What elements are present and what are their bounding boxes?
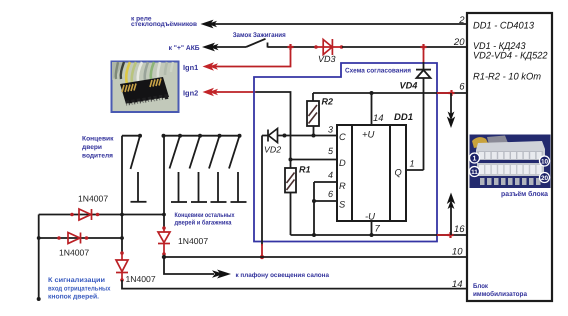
photo connector chip <box>112 62 179 113</box>
diode D6 1N4007 <box>57 233 88 244</box>
wire AKB segment <box>206 46 246 48</box>
diode VD3 <box>314 39 343 55</box>
block immobilizer panel <box>467 13 552 301</box>
wire R1 bottom to line16 <box>290 193 292 236</box>
svg-text:VD3: VD3 <box>318 54 336 64</box>
svg-text:вход отрицательных: вход отрицательных <box>48 285 111 292</box>
wire R line <box>314 181 337 183</box>
svg-text:разъём блока: разъём блока <box>501 190 548 198</box>
wire red branch Ign1 vertical <box>212 47 291 67</box>
junction pin14 dot <box>370 91 374 95</box>
svg-text:1N4007: 1N4007 <box>178 236 208 246</box>
svg-text:водителя: водителя <box>82 152 113 159</box>
switch ignition contact stub <box>267 43 269 48</box>
diode VD4 <box>416 62 431 170</box>
junction pin7 dot <box>370 233 374 237</box>
wire +U line to pin6 <box>313 92 467 94</box>
svg-text:Блок: Блок <box>473 283 489 290</box>
wire line20 switch to VD3 <box>268 46 318 48</box>
wire R2 bottom stub <box>313 126 315 136</box>
svg-text:Схема согласования: Схема согласования <box>345 67 411 74</box>
wire R-S vertical to line16 <box>313 182 315 235</box>
wire line2 to window-lifter relay <box>204 23 467 25</box>
svg-text:двери: двери <box>82 144 102 151</box>
svg-text:Замок Зажигания: Замок Зажигания <box>233 32 286 39</box>
pin marker circle 1 <box>470 153 480 163</box>
wire Ign2 into box to D bus <box>256 92 291 168</box>
junction R2 C-line dot <box>312 134 316 138</box>
wire diode line lower <box>39 237 122 239</box>
svg-text:+U: +U <box>362 130 375 141</box>
wire pin14 vertical <box>371 93 373 125</box>
switch door2 <box>170 136 188 202</box>
photo block connector <box>470 135 551 189</box>
switch ignition lock lever <box>246 39 266 47</box>
svg-text:иммобилизатора: иммобилизатора <box>473 291 527 298</box>
wire red Ign2 <box>212 91 256 93</box>
wire line20 VD3 to block pin20 <box>342 46 467 48</box>
switch door4 <box>209 136 227 202</box>
junction red line6 <box>449 90 455 96</box>
svg-text:дверей и багажника: дверей и багажника <box>175 220 232 227</box>
svg-text:к "+" АКБ: к "+" АКБ <box>169 45 200 52</box>
wire diode3 to line14 <box>122 280 467 289</box>
wire red VD2 lower segment <box>261 244 263 257</box>
switch door3 <box>190 136 208 202</box>
svg-text:VD4: VD4 <box>400 81 418 91</box>
svg-text:1: 1 <box>410 159 415 169</box>
svg-text:1N4007: 1N4007 <box>59 248 89 258</box>
pin marker circle 10 <box>540 156 550 166</box>
svg-text:C: C <box>339 132 346 142</box>
junction S dot <box>312 199 316 203</box>
svg-text:R: R <box>339 181 346 191</box>
junction red line20 <box>421 44 427 50</box>
svg-text:3: 3 <box>328 125 333 135</box>
arrow red Ign1 <box>203 62 219 70</box>
wire VD2 cathode down to line10 <box>261 136 263 246</box>
diode VD2 <box>268 129 287 143</box>
blue box Схема согласования <box>254 63 437 242</box>
svg-text:R1: R1 <box>299 165 311 175</box>
switch group rear doors bar <box>164 135 240 137</box>
wire driver switch bus <box>121 136 123 253</box>
svg-text:Концевик: Концевик <box>82 135 114 142</box>
svg-text:2: 2 <box>458 15 465 26</box>
svg-text:D: D <box>339 158 346 168</box>
wire C line <box>262 135 337 137</box>
junction bar dots <box>162 134 242 138</box>
svg-text:1N4007: 1N4007 <box>78 194 108 204</box>
svg-text:14: 14 <box>373 113 384 124</box>
svg-text:DD1 - CD4013: DD1 - CD4013 <box>473 21 535 32</box>
wire group bus <box>163 136 165 228</box>
svg-text:20: 20 <box>541 175 549 182</box>
junction red on line10 <box>260 255 264 259</box>
wire red VD4 top <box>423 47 425 63</box>
wire red segment line16 <box>437 234 451 236</box>
svg-text:R1-R2 - 10 kOm: R1-R2 - 10 kOm <box>473 72 541 83</box>
svg-text:-U: -U <box>365 212 375 223</box>
wire S line <box>314 200 337 202</box>
svg-text:к плафону освещения салона: к плафону освещения салона <box>236 272 330 279</box>
svg-text:К сигнализации: К сигнализации <box>48 277 105 284</box>
svg-text:1N4007: 1N4007 <box>126 274 156 284</box>
svg-text:Ign1: Ign1 <box>183 63 198 72</box>
diode D5 1N4007 <box>70 209 99 220</box>
svg-text:1: 1 <box>473 156 477 163</box>
diode D7 1N4007 vertical <box>116 251 128 282</box>
svg-text:10: 10 <box>452 246 463 257</box>
switch trunk <box>229 136 247 202</box>
svg-text:6: 6 <box>328 189 333 199</box>
svg-text:20: 20 <box>453 37 465 48</box>
arrow to relay label <box>201 20 218 29</box>
wire diode line upper <box>39 214 164 216</box>
junction line16 RS dot <box>312 233 316 237</box>
svg-text:R2: R2 <box>322 97 334 107</box>
arrow red Ign2 <box>203 88 219 96</box>
wire red segment line6 <box>437 92 452 94</box>
arrow down from line6 <box>450 93 452 118</box>
junction red at switch line <box>288 44 294 50</box>
junction dots bus crossings <box>37 213 166 240</box>
node end dot alarm bus <box>37 297 41 301</box>
arrow to cabin light <box>212 270 231 279</box>
svg-text:Концевики остальных: Концевики остальных <box>175 212 235 219</box>
svg-text:14: 14 <box>452 279 463 290</box>
resistor R2 <box>307 101 319 126</box>
svg-text:6: 6 <box>459 82 465 93</box>
wire to cabin light <box>164 257 214 274</box>
wire Q line pin1 <box>406 169 424 171</box>
diode D8 1N4007 vertical <box>158 226 170 256</box>
wire line10 <box>164 256 467 258</box>
svg-text:DD1: DD1 <box>394 112 413 123</box>
arrow up from line16 <box>450 203 452 235</box>
svg-text:16: 16 <box>454 224 465 235</box>
op-amp DD1 box <box>337 125 406 221</box>
svg-text:стеклоподъёмников: стеклоподъёмников <box>131 21 197 28</box>
svg-text:VD2: VD2 <box>264 145 281 155</box>
wire pin7 vertical <box>371 221 373 235</box>
junction D-line dot <box>289 158 293 162</box>
svg-text:10: 10 <box>541 159 549 166</box>
svg-text:S: S <box>339 200 346 210</box>
svg-text:кнопок дверей.: кнопок дверей. <box>48 293 99 301</box>
svg-text:VD2-VD4 - КД522: VD2-VD4 - КД522 <box>473 51 548 62</box>
wire line16 <box>291 234 467 236</box>
svg-text:7: 7 <box>375 224 381 235</box>
svg-text:Q: Q <box>395 168 402 178</box>
svg-text:11: 11 <box>471 169 478 176</box>
switch driver door <box>122 134 147 202</box>
wire D line <box>291 159 338 161</box>
svg-text:Ign2: Ign2 <box>183 89 198 98</box>
pin marker circle 20 <box>540 173 550 183</box>
resistor R1 <box>285 168 296 193</box>
junction line10 dot <box>162 255 166 259</box>
arrow to +AKB label <box>202 43 219 52</box>
junction red line16 <box>448 232 454 238</box>
wire left bus to alarm <box>38 215 40 299</box>
pin marker circle 11 <box>470 167 480 177</box>
svg-text:4: 4 <box>328 170 333 180</box>
wire R2 top stub <box>312 93 314 101</box>
